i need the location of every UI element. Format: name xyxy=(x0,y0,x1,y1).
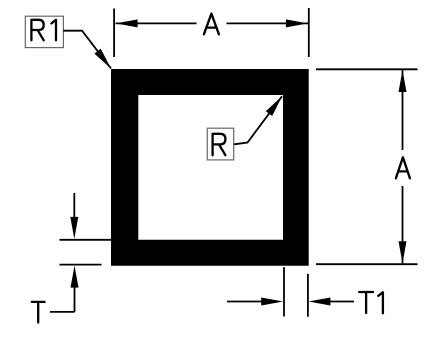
label T1 xyxy=(359,292,383,313)
dimension line lower segment xyxy=(402,186,404,263)
arrowhead up (T dim) xyxy=(71,266,79,288)
dimension T1 (wall thickness, bottom-right) xyxy=(227,267,354,317)
extension line top (right dim) xyxy=(316,68,418,70)
arrowhead up (right dim) xyxy=(399,70,407,92)
R1 text xyxy=(31,20,56,41)
R1 leader arrowhead xyxy=(94,49,111,69)
R text xyxy=(213,134,226,155)
arrowhead left (top dim) xyxy=(116,19,138,27)
R leader line xyxy=(234,96,282,144)
dimension T (wall thickness, bottom-left) xyxy=(50,193,111,312)
extension line at inner right edge xyxy=(283,267,285,316)
label T xyxy=(32,302,45,323)
extension line bottom (right dim) xyxy=(316,263,418,265)
R1 leader line xyxy=(63,31,111,69)
T1 right arrow stem xyxy=(330,301,354,303)
extension line at outer bottom edge xyxy=(60,264,102,266)
extension line at inner bottom edge xyxy=(60,239,112,241)
extension line at outer right edge xyxy=(307,274,309,317)
R box xyxy=(207,128,233,160)
T lower arrow stem and elbow to label xyxy=(50,287,75,312)
T upper arrow stem xyxy=(73,193,75,218)
square tube cross-section (black ring) xyxy=(111,69,309,266)
dimension line left segment xyxy=(116,22,197,24)
extension line right (top dim) xyxy=(308,8,310,57)
label A (right) xyxy=(396,157,410,178)
arrowhead left (T1 dim) xyxy=(308,298,330,306)
dimension A (right, overall height) xyxy=(316,69,418,264)
extension line left (top dim) xyxy=(113,9,115,58)
dimension line upper segment xyxy=(402,70,404,150)
T1 left arrow stem xyxy=(227,301,262,303)
dimension line right segment xyxy=(227,22,308,24)
arrowhead right (T1 dim) xyxy=(261,298,283,306)
arrowhead down (T dim) xyxy=(70,217,78,239)
label A (top) xyxy=(204,14,219,35)
arrowhead right (top dim) xyxy=(286,19,308,27)
R1 box xyxy=(25,16,63,47)
arrowhead down (right dim) xyxy=(399,241,407,263)
R leader arrowhead xyxy=(266,96,282,116)
dimension A (top, overall width) xyxy=(114,8,309,57)
